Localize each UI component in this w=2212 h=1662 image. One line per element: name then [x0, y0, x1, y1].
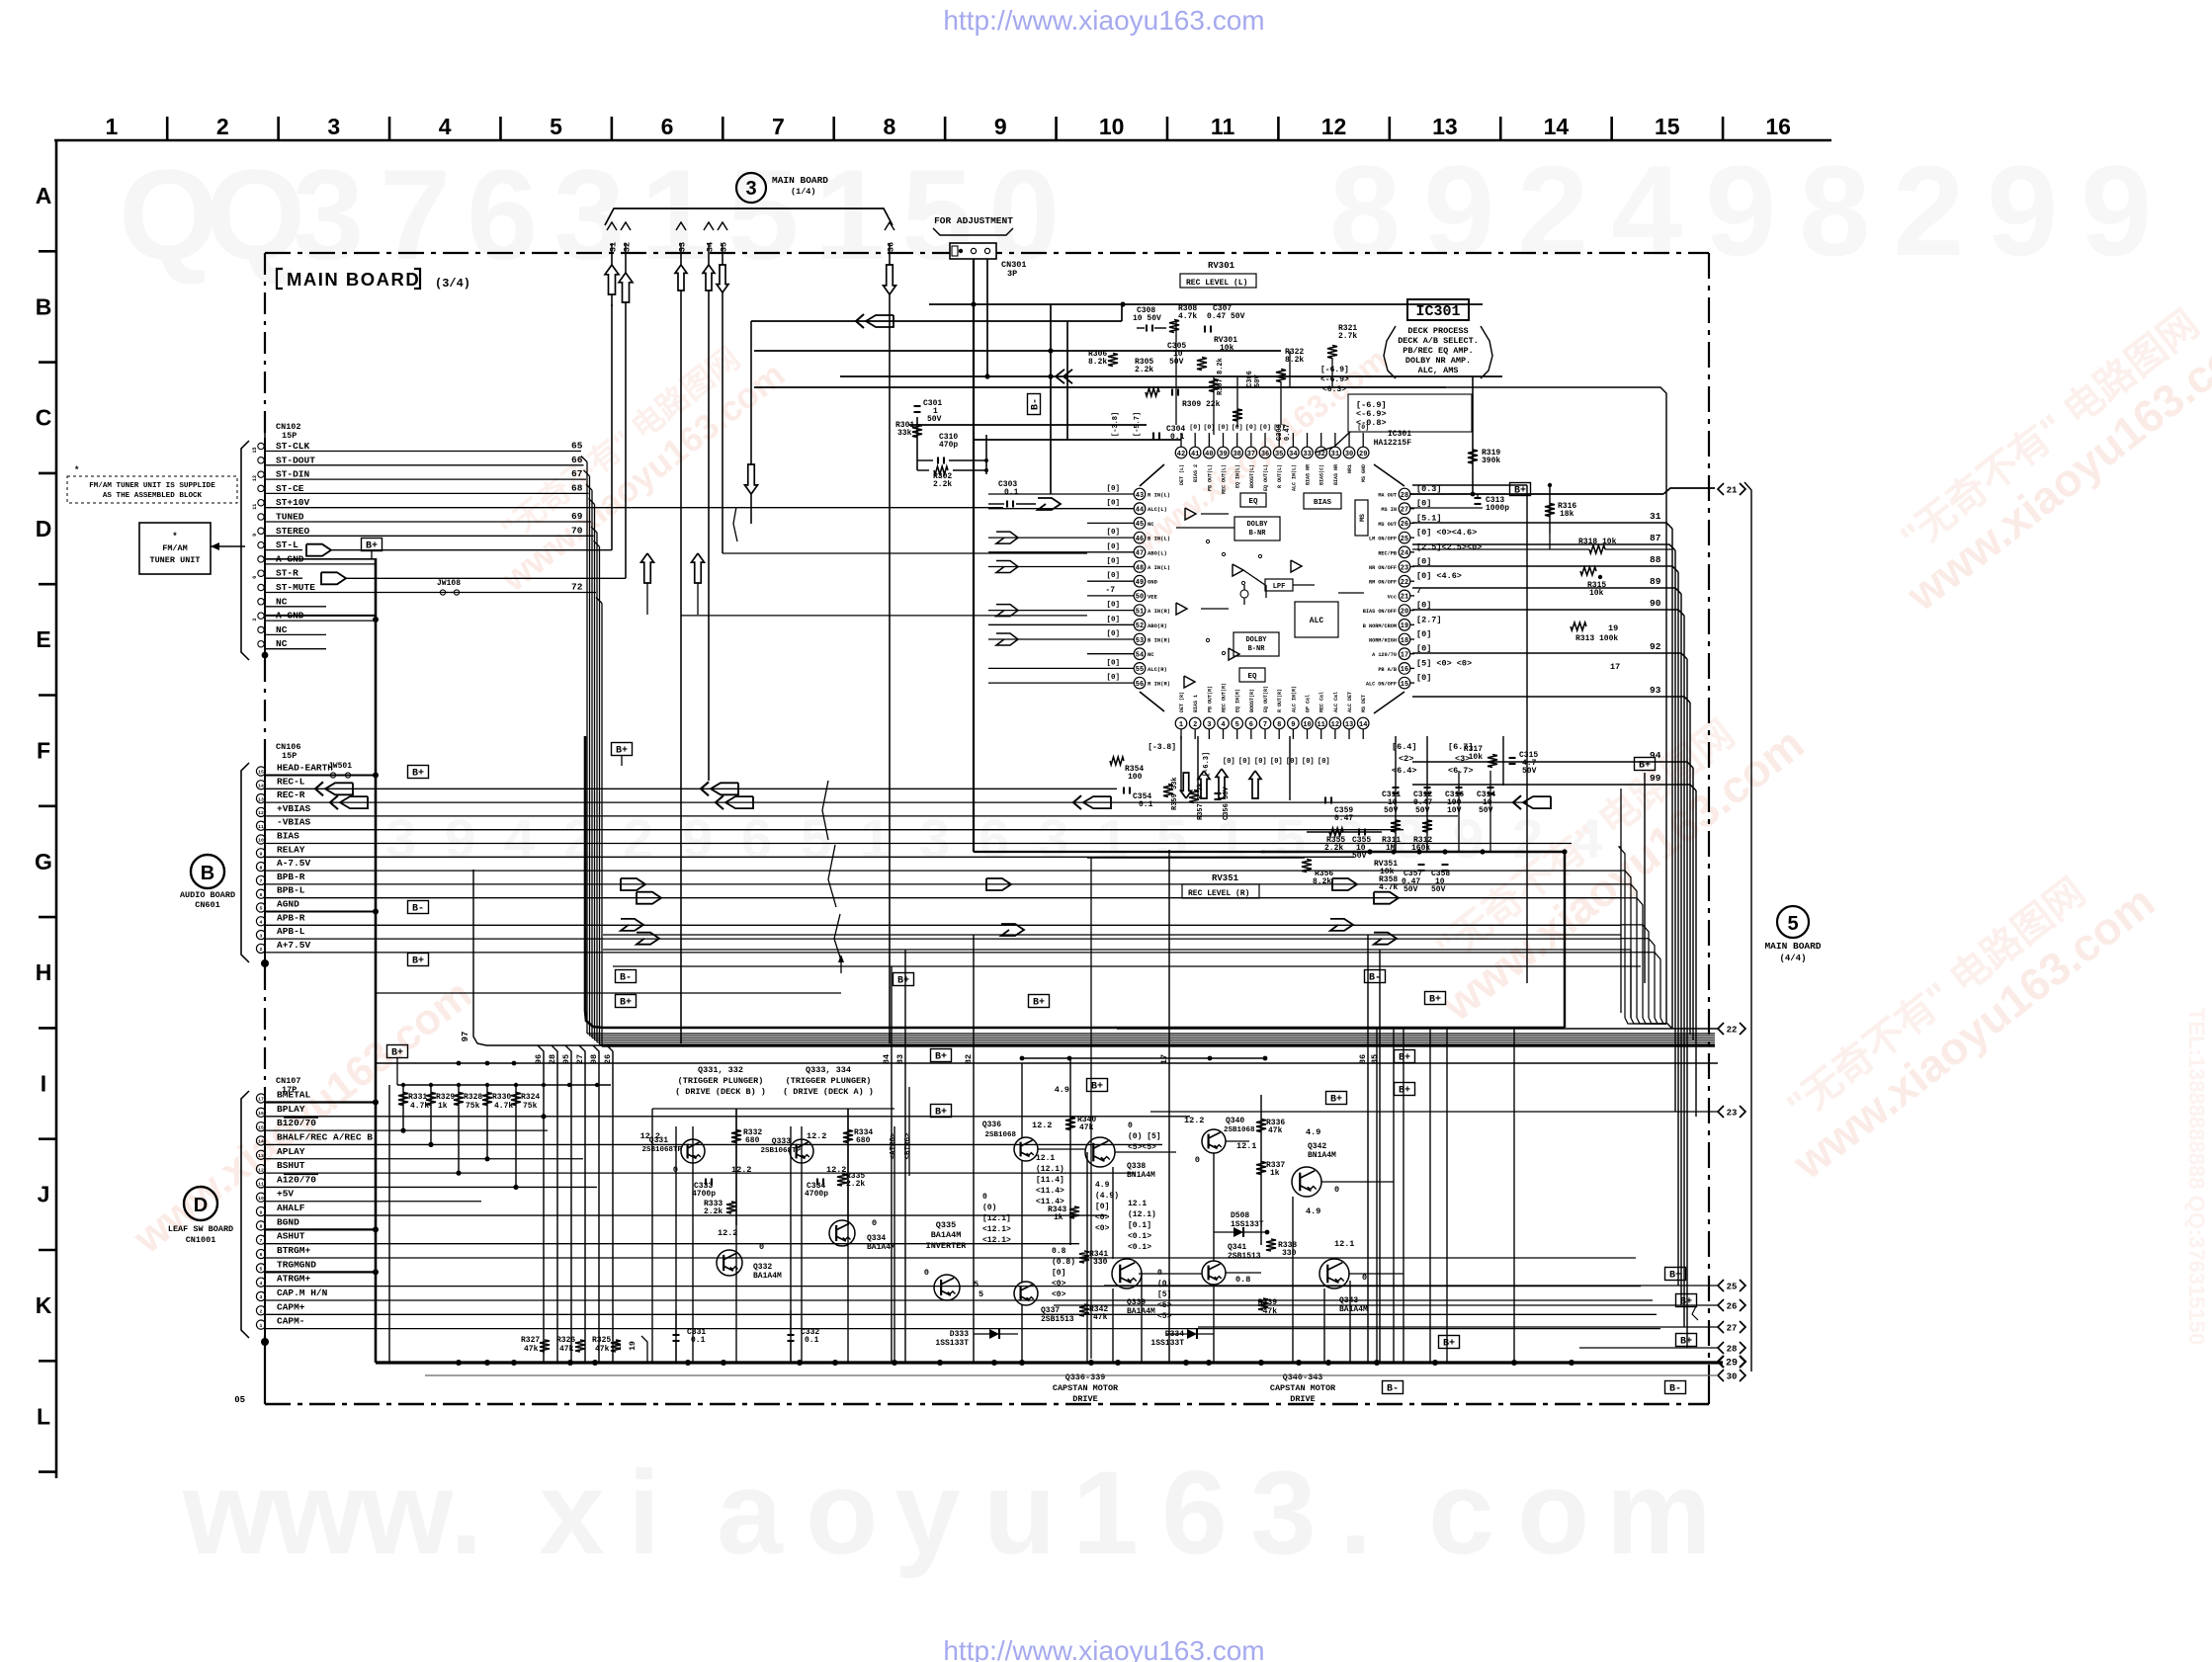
svg-text:[0]: [0]: [1416, 601, 1431, 611]
svg-text:4: 4: [1611, 138, 1682, 283]
svg-text:6: 6: [260, 892, 263, 898]
svg-text:B IN(R): B IN(R): [1148, 637, 1170, 644]
svg-text:ABO(R): ABO(R): [1148, 623, 1167, 629]
svg-text:(3/4): (3/4): [435, 277, 470, 291]
power rail label B-: [1383, 1381, 1404, 1395]
svg-text:9: 9: [1423, 138, 1494, 283]
svg-text:EQ IN(L): EQ IN(L): [1235, 464, 1241, 488]
svg-text:19: 19: [1608, 623, 1618, 633]
svg-text:3: 3: [260, 1294, 263, 1300]
svg-text:NC: NC: [1148, 521, 1154, 528]
svg-text:PB A/B: PB A/B: [1378, 667, 1397, 673]
power rail label B+: [1665, 1268, 1686, 1282]
svg-text:1000p: 1000p: [1486, 504, 1509, 513]
svg-text:[0]: [0]: [1357, 424, 1369, 431]
IC301 pin array: [1140, 464, 1164, 486]
svg-text:ST-DIN: ST-DIN: [276, 469, 310, 480]
svg-text:Q333: Q333: [772, 1137, 791, 1146]
svg-text:5: 5: [1235, 721, 1239, 729]
svg-text:DOLBY: DOLBY: [1245, 636, 1267, 644]
svg-text:<6.7>: <6.7>: [1448, 766, 1474, 776]
transistor: [1202, 1129, 1226, 1153]
svg-text:R326: R326: [556, 1336, 575, 1345]
svg-text:1: 1: [260, 1323, 263, 1329]
svg-text:(0): (0): [982, 1204, 996, 1212]
svg-text:1: 1: [106, 114, 119, 139]
svg-text:u: u: [983, 1447, 1056, 1579]
svg-text:PB/REC EQ AMP.: PB/REC EQ AMP.: [1403, 346, 1473, 356]
svg-text:25: 25: [1401, 536, 1408, 543]
svg-text:R330: R330: [492, 1093, 511, 1102]
svg-text:50V: 50V: [927, 415, 942, 424]
power rail label B+: [1676, 1294, 1697, 1308]
svg-text:AUDIO BOARD: AUDIO BOARD: [180, 890, 235, 900]
svg-text:3: 3: [327, 114, 340, 139]
svg-text:B+: B+: [1399, 1086, 1410, 1097]
svg-text:ALC: ALC: [1310, 617, 1324, 625]
svg-text:AGND: AGND: [277, 899, 299, 910]
svg-text:B+: B+: [1680, 1297, 1692, 1308]
svg-text:46: 46: [1136, 536, 1144, 543]
power rail label B-: [1365, 970, 1386, 984]
svg-text:1SS133T: 1SS133T: [935, 1339, 969, 1348]
svg-text:1SS133T: 1SS133T: [1150, 1339, 1184, 1348]
svg-text:[6.7]: [6.7]: [1448, 742, 1474, 752]
svg-text:STEREO: STEREO: [276, 526, 310, 537]
svg-text:[0]: [0]: [1106, 500, 1120, 508]
svg-text:93: 93: [1650, 685, 1661, 696]
svg-text:12.2: 12.2: [640, 1131, 660, 1141]
transistor Q332: [717, 1250, 742, 1276]
svg-text:http://www.xiaoyu163.com: http://www.xiaoyu163.com: [943, 1635, 1264, 1662]
svg-text:REC-R: REC-R: [277, 789, 305, 800]
svg-text:BPLAY: BPLAY: [277, 1104, 305, 1115]
svg-text:4.9: 4.9: [1095, 1181, 1110, 1190]
svg-text:[0]: [0]: [1106, 485, 1120, 493]
svg-text:H: H: [36, 959, 52, 985]
svg-text:B NORM/CROM: B NORM/CROM: [1363, 623, 1397, 629]
svg-text:9: 9: [1987, 138, 2058, 283]
svg-text:5: 5: [978, 1289, 983, 1299]
svg-text:[-3.8]: [-3.8]: [1112, 412, 1120, 437]
svg-text:2SB1068TP: 2SB1068TP: [760, 1147, 801, 1155]
svg-text:[-3.8]: [-3.8]: [1148, 743, 1176, 752]
svg-text:29: 29: [1726, 1358, 1738, 1369]
svg-text:16: 16: [258, 1111, 264, 1117]
svg-text:BGND: BGND: [277, 1216, 299, 1227]
svg-text:84: 84: [882, 1054, 892, 1064]
svg-text:12: 12: [258, 810, 264, 816]
svg-text:8: 8: [260, 1224, 263, 1230]
svg-text:[0]: [0]: [1052, 1269, 1065, 1278]
svg-text:B+: B+: [616, 746, 628, 757]
off-page connector 23: [1718, 1106, 1724, 1118]
svg-text:CN1001: CN1001: [186, 1235, 216, 1245]
svg-text:10 50V: 10 50V: [1133, 314, 1161, 323]
svg-text:A IN(L): A IN(L): [1148, 564, 1170, 571]
svg-text:R OUT(R): R OUT(R): [1277, 689, 1283, 712]
svg-text:FM/AM TUNER UNIT IS SUPPLIDE: FM/AM TUNER UNIT IS SUPPLIDE: [89, 482, 215, 490]
svg-text:B+: B+: [1514, 486, 1526, 497]
svg-text:89: 89: [1650, 576, 1661, 587]
svg-text:NORM/HIGH: NORM/HIGH: [1369, 638, 1397, 644]
transistor: [934, 1275, 960, 1300]
svg-text:Q: Q: [119, 142, 218, 287]
svg-text:15: 15: [252, 447, 258, 453]
svg-text:2: 2: [1193, 721, 1197, 729]
svg-text:17: 17: [1159, 1054, 1169, 1064]
power rail label B+: [931, 1105, 952, 1119]
svg-text:6: 6: [1161, 1447, 1228, 1579]
svg-text:8: 8: [1277, 721, 1281, 729]
power rail label B+: [408, 954, 429, 967]
svg-text:35: 35: [720, 242, 729, 252]
svg-text:w: w: [360, 1447, 454, 1579]
signal arrow: [1249, 771, 1261, 798]
svg-text:55: 55: [1136, 666, 1144, 674]
svg-text:[0]: [0]: [1218, 424, 1230, 431]
resistor R343: [1069, 1206, 1079, 1218]
border ruler grid: [54, 139, 1831, 142]
svg-text:69: 69: [571, 511, 583, 522]
svg-text:Q331, 332: Q331, 332: [698, 1065, 743, 1075]
svg-text:A-7.5V: A-7.5V: [277, 858, 311, 869]
svg-text:99: 99: [1650, 773, 1661, 784]
svg-text:8: 8: [883, 114, 895, 139]
svg-text:PB OUT(R): PB OUT(R): [1207, 686, 1213, 712]
svg-text:4.9: 4.9: [1055, 1085, 1069, 1095]
svg-text:43: 43: [1136, 492, 1144, 500]
svg-text:NC: NC: [276, 638, 288, 649]
svg-text:1k: 1k: [1054, 1213, 1063, 1222]
svg-text:4700p: 4700p: [805, 1190, 828, 1199]
svg-text:R313 100k: R313 100k: [1575, 634, 1618, 643]
svg-text:72: 72: [571, 582, 583, 593]
svg-text:TRGMGND: TRGMGND: [277, 1259, 316, 1270]
svg-text:[0]: [0]: [1106, 659, 1120, 667]
capacitor C334: [816, 1179, 818, 1186]
svg-text:12: 12: [1321, 114, 1347, 139]
power rail label B+: [408, 766, 429, 780]
svg-text:[0]: [0]: [1416, 673, 1431, 683]
svg-text:BPB-R: BPB-R: [277, 872, 305, 882]
off-page connector 21: [1718, 483, 1724, 495]
svg-text:A120/70: A120/70: [277, 1174, 316, 1185]
svg-text:R329: R329: [436, 1093, 455, 1102]
svg-text:Q336: Q336: [982, 1121, 1001, 1129]
power rail label B+: [616, 995, 637, 1009]
svg-text:5: 5: [727, 142, 799, 287]
power rail label B+: [1510, 483, 1531, 497]
svg-text:[0]: [0]: [1416, 644, 1431, 654]
svg-text:Q342: Q342: [1308, 1142, 1326, 1151]
resistor R342: [1079, 1304, 1089, 1316]
transistor Q338: [1085, 1137, 1115, 1167]
svg-text:26: 26: [1727, 1301, 1738, 1311]
svg-text:88: 88: [1650, 554, 1661, 565]
svg-text:ST+10V: ST+10V: [276, 497, 310, 508]
power rail label B+: [362, 539, 383, 552]
svg-text:D333: D333: [950, 1330, 969, 1339]
svg-text:AHALF: AHALF: [277, 1203, 305, 1213]
signal arrow: [621, 919, 643, 931]
svg-text:B+: B+: [1443, 1339, 1455, 1350]
svg-text:0.1: 0.1: [805, 1336, 819, 1345]
svg-text:MS GND: MS GND: [1361, 464, 1367, 482]
svg-text:o: o: [806, 1447, 878, 1579]
svg-text:0: 0: [1195, 1155, 1200, 1165]
svg-text:BIAS 2: BIAS 2: [1193, 464, 1199, 482]
svg-text:27: 27: [1401, 507, 1408, 515]
svg-text:[-6.3]: [-6.3]: [1203, 752, 1211, 777]
svg-text:<0.1>: <0.1>: [1128, 1243, 1151, 1252]
svg-text:13: 13: [1432, 114, 1458, 139]
svg-text:7: 7: [1263, 721, 1267, 729]
svg-text:2: 2: [260, 947, 263, 953]
svg-text:15: 15: [258, 1124, 264, 1130]
svg-text:B-: B-: [1369, 973, 1381, 984]
svg-text:C: C: [36, 405, 52, 431]
svg-text:40: 40: [1205, 451, 1213, 458]
svg-text:NR1: NR1: [1347, 464, 1353, 473]
signal arrow: [1056, 370, 1064, 383]
svg-text:3: 3: [553, 142, 625, 287]
svg-text:[2.7]: [2.7]: [1416, 615, 1442, 624]
svg-text:86: 86: [1358, 1054, 1368, 1064]
svg-text:[0]: [0]: [1106, 602, 1120, 610]
svg-text:8.2k: 8.2k: [1088, 358, 1107, 367]
svg-text:4: 4: [1221, 721, 1225, 729]
svg-text:[0]: [0]: [1106, 674, 1120, 682]
svg-text:5: 5: [901, 142, 973, 287]
svg-text:15: 15: [1401, 681, 1408, 689]
svg-text:0.8: 0.8: [1235, 1275, 1250, 1285]
svg-text:18k: 18k: [1560, 510, 1574, 519]
svg-text:12: 12: [1331, 721, 1339, 729]
svg-text:14: 14: [258, 1139, 264, 1145]
svg-text:[5]: [5]: [1157, 1290, 1171, 1299]
svg-text:0: 0: [759, 1242, 764, 1252]
svg-text:12.1: 12.1: [1236, 1141, 1256, 1151]
svg-text:10k: 10k: [1589, 589, 1604, 598]
svg-text:2.7k: 2.7k: [1338, 332, 1357, 341]
svg-text:(TRIGGER PLUNGER): (TRIGGER PLUNGER): [786, 1076, 872, 1086]
svg-text:<2>: <2>: [1399, 754, 1413, 764]
svg-text:Vcc: Vcc: [1388, 594, 1397, 600]
svg-text:0: 0: [924, 1268, 929, 1278]
svg-text:EQ IN(R): EQ IN(R): [1235, 689, 1241, 712]
power rail label B-: [616, 970, 637, 984]
svg-text:<0>: <0>: [1052, 1290, 1066, 1299]
svg-text:30: 30: [1727, 1371, 1738, 1381]
svg-text:10: 10: [1303, 721, 1311, 729]
svg-text:R OUT(L): R OUT(L): [1277, 464, 1283, 488]
svg-text:100: 100: [1128, 773, 1143, 782]
capstan motor drive block Q336-Q343: [1022, 1057, 1265, 1059]
svg-text:A: A: [36, 183, 52, 208]
svg-text:1: 1: [814, 142, 886, 287]
svg-text:66: 66: [571, 455, 583, 465]
svg-text:A 120/70: A 120/70: [1372, 652, 1397, 658]
svg-text:[5] <0> <0>: [5] <0> <0>: [1416, 658, 1472, 668]
svg-text:[0]: [0]: [1106, 630, 1120, 638]
power rail label B+: [1439, 1336, 1460, 1350]
svg-text:2: 2: [1517, 138, 1588, 283]
svg-text:BIAS: BIAS: [1314, 499, 1332, 507]
svg-text:<11.4>: <11.4>: [1036, 1187, 1064, 1196]
svg-text:9: 9: [260, 1209, 263, 1215]
svg-text:m: m: [1606, 1447, 1712, 1579]
svg-text:[0]: [0]: [1286, 758, 1299, 766]
svg-text:( DRIVE (DECK B) ): ( DRIVE (DECK B) ): [675, 1087, 766, 1097]
svg-text:B+: B+: [1033, 998, 1045, 1009]
svg-text:47k: 47k: [1263, 1307, 1278, 1316]
svg-text:BMETAL: BMETAL: [277, 1090, 311, 1101]
svg-text:DECK A/B SELECT.: DECK A/B SELECT.: [1398, 336, 1479, 346]
svg-text:10k: 10k: [1469, 753, 1484, 762]
resistor: [426, 1093, 436, 1106]
svg-text:9: 9: [2081, 138, 2152, 283]
svg-text:0.47 50V: 0.47 50V: [1207, 312, 1245, 321]
svg-text:<12.1>: <12.1>: [982, 1236, 1011, 1245]
power rail label B+: [893, 973, 914, 987]
svg-text:11: 11: [258, 824, 264, 830]
svg-text:RV351: RV351: [1212, 873, 1239, 883]
svg-text:28: 28: [1401, 492, 1408, 500]
svg-text:TEL:13888888888 QQ:376315150: TEL:13888888888 QQ:376315150: [2184, 1008, 2209, 1345]
signal arrow: [1038, 498, 1061, 510]
svg-text:12.2: 12.2: [1184, 1116, 1204, 1125]
svg-text:2: 2: [216, 114, 229, 139]
signal arrow: [637, 933, 659, 945]
svg-text:INVERTER: INVERTER: [926, 1241, 968, 1251]
svg-text:<3>: <3>: [1455, 754, 1470, 764]
svg-text:B120/70: B120/70: [277, 1118, 316, 1128]
svg-text:B+: B+: [620, 998, 632, 1009]
power rail label B+: [387, 1045, 408, 1059]
svg-text:65: 65: [571, 441, 583, 452]
svg-text:50V: 50V: [1169, 358, 1184, 367]
svg-text:7: 7: [260, 878, 263, 884]
svg-text:50V: 50V: [1404, 885, 1418, 894]
off-page connector 26: [1718, 1299, 1724, 1311]
svg-text:<0>: <0>: [1052, 1280, 1066, 1288]
svg-text:PB OUT(L): PB OUT(L): [1207, 464, 1213, 491]
svg-text:(0) [5]: (0) [5]: [1128, 1132, 1161, 1141]
svg-text:<-6.9>: <-6.9>: [1320, 375, 1349, 384]
svg-text:o: o: [1517, 1447, 1589, 1579]
svg-text:REC LEVEL (R): REC LEVEL (R): [1188, 889, 1249, 898]
svg-text:RELAY: RELAY: [277, 844, 305, 855]
signal arrow: [621, 878, 645, 890]
svg-text:680: 680: [856, 1136, 871, 1145]
wire verticals mid right: [1620, 789, 1622, 1013]
svg-text:12.1: 12.1: [1334, 1239, 1354, 1249]
svg-text:HEAD-EARTH: HEAD-EARTH: [277, 763, 333, 774]
svg-text:TUNED: TUNED: [276, 512, 304, 523]
svg-text:E: E: [36, 626, 50, 652]
svg-text:B+: B+: [935, 1052, 947, 1063]
svg-text:56: 56: [1136, 681, 1144, 689]
svg-text:8: 8: [1799, 138, 1870, 283]
svg-text:.: .: [450, 1447, 482, 1579]
svg-text:2.2k: 2.2k: [1135, 366, 1153, 374]
svg-text:31: 31: [1331, 451, 1339, 458]
svg-text:Q343: Q343: [1339, 1296, 1358, 1305]
svg-text:<0>: <0>: [1095, 1213, 1110, 1222]
svg-text:[0]: [0]: [1416, 629, 1431, 639]
signal arrow: [641, 553, 654, 583]
svg-text:BSHUT: BSHUT: [277, 1160, 305, 1171]
signal arrow: [306, 544, 331, 556]
power rail label B+: [1676, 1334, 1697, 1348]
svg-text:6: 6: [661, 114, 674, 139]
svg-text:12.2: 12.2: [731, 1165, 751, 1175]
svg-text:19: 19: [1401, 623, 1408, 630]
resistor R340: [1065, 1118, 1075, 1130]
main board dash-dot border: [265, 252, 1709, 254]
svg-text:D: D: [194, 1195, 208, 1216]
transistor Q331: [681, 1139, 705, 1163]
svg-text:MA OUT: MA OUT: [1378, 493, 1397, 499]
svg-text:2SB1068: 2SB1068: [1224, 1126, 1255, 1134]
off-page connector 22: [1718, 1023, 1724, 1035]
svg-text:B-NR: B-NR: [1249, 530, 1267, 538]
svg-text:87: 87: [1650, 533, 1661, 543]
svg-text:NR ON/OFF: NR ON/OFF: [1369, 565, 1397, 571]
svg-text:6: 6: [252, 576, 258, 579]
svg-text:0: 0: [982, 1193, 987, 1202]
svg-text:2: 2: [260, 1309, 263, 1315]
svg-text:13: 13: [258, 796, 264, 802]
svg-text:ALC DET: ALC DET: [1347, 692, 1353, 712]
svg-text:REC OUT(L): REC OUT(L): [1222, 464, 1228, 494]
svg-text:BA1A4M: BA1A4M: [753, 1272, 782, 1281]
svg-text:9: 9: [1291, 721, 1295, 729]
svg-text:2: 2: [1893, 138, 1964, 283]
svg-text:ST-CE: ST-CE: [276, 483, 304, 494]
resistor R315: [1580, 567, 1596, 575]
svg-text:FM/AM: FM/AM: [162, 543, 188, 553]
svg-text:5: 5: [550, 114, 562, 139]
power rail label B+: [1326, 1092, 1347, 1106]
svg-text:B-NR: B-NR: [1248, 645, 1266, 653]
svg-text:3: 3: [260, 933, 263, 939]
capacitor C315 cluster: [1502, 736, 1504, 786]
wire bus mid board: [681, 615, 1087, 617]
transistor: [1202, 1261, 1226, 1285]
node B audio board CN601: [191, 855, 224, 888]
svg-text:54: 54: [1136, 652, 1144, 660]
power rail label B+: [612, 743, 633, 757]
svg-text:BIAS NR: BIAS NR: [1306, 464, 1312, 485]
svg-text:75k: 75k: [523, 1102, 538, 1111]
svg-text:http://www.xiaoyu163.com: http://www.xiaoyu163.com: [943, 5, 1264, 36]
svg-text:70: 70: [571, 525, 583, 536]
svg-text:B+: B+: [366, 541, 378, 552]
svg-text:44: 44: [1136, 507, 1144, 515]
svg-text:B+: B+: [412, 769, 424, 780]
svg-text:[0]: [0]: [1302, 758, 1315, 766]
svg-text:8: 8: [260, 865, 263, 871]
svg-text:ABO(L): ABO(L): [1148, 549, 1167, 556]
svg-text:52: 52: [1136, 623, 1144, 630]
svg-text:13: 13: [258, 1153, 264, 1159]
svg-text:[5.1]: [5.1]: [1416, 513, 1442, 523]
svg-text:15: 15: [1655, 114, 1680, 139]
svg-text:LEAF SW BOARD: LEAF SW BOARD: [168, 1224, 233, 1234]
svg-text:[0]: [0]: [1245, 424, 1257, 431]
